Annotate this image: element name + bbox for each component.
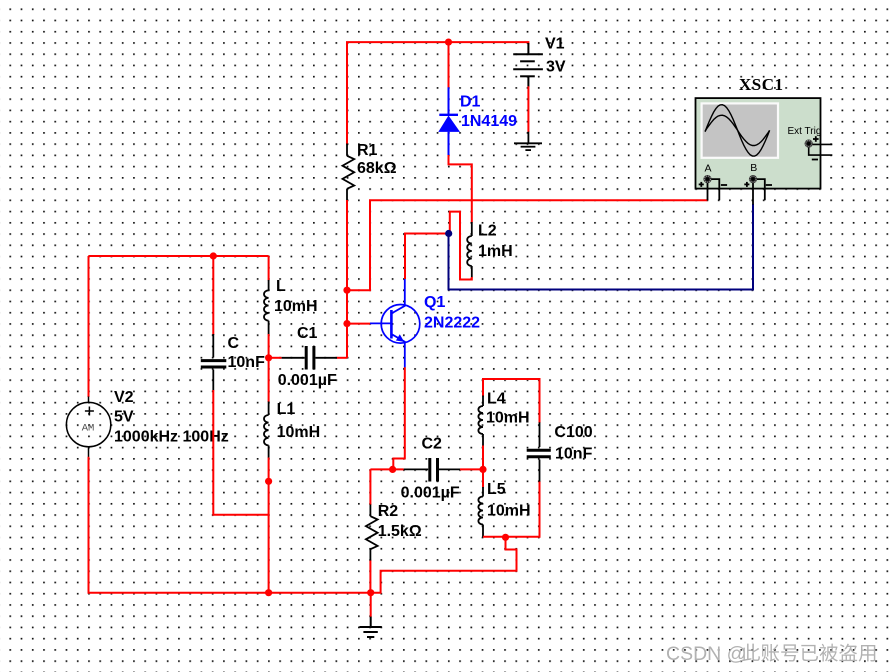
node tank mid junction xyxy=(479,466,486,473)
wire tank loop top xyxy=(483,379,540,423)
wire D1 cathode to L2 top xyxy=(449,155,472,223)
capacitor C2 0.001uF xyxy=(370,458,483,482)
svg-text:10nF: 10nF xyxy=(555,445,593,462)
wire top rail V1/R1/D1 xyxy=(347,42,528,144)
svg-text:C: C xyxy=(228,335,240,352)
oscilloscope XSC1 xyxy=(696,98,821,189)
svg-text:10mH: 10mH xyxy=(486,409,530,426)
source V2 AM xyxy=(66,397,110,458)
wire L1 top xyxy=(268,358,270,402)
wire navy to scope channel B xyxy=(449,204,754,290)
svg-text:B: B xyxy=(750,162,757,174)
svg-text:0.001µF: 0.001µF xyxy=(401,484,460,501)
wire V2 bottom to ground rail xyxy=(89,457,371,593)
svg-text:1.5kΩ: 1.5kΩ xyxy=(378,523,422,540)
wire L top xyxy=(268,256,270,281)
wire tank to ground rail xyxy=(371,537,517,592)
node ground rail R2 xyxy=(367,589,374,596)
inductor L 10mH xyxy=(264,280,269,335)
junction node top (D1 top) xyxy=(445,39,452,46)
svg-text:Ext Trig: Ext Trig xyxy=(788,126,822,137)
inductor L1 10mH xyxy=(264,402,269,459)
node base junction xyxy=(343,320,350,327)
svg-text:10mH: 10mH xyxy=(274,298,318,315)
wire C bottom to rail xyxy=(213,390,268,515)
ground under V1 xyxy=(514,132,542,150)
svg-text:L: L xyxy=(276,278,286,295)
svg-text:C2: C2 xyxy=(422,436,443,453)
wire to scope channel A xyxy=(347,200,707,290)
svg-text:V2: V2 xyxy=(114,389,134,406)
svg-text:V1: V1 xyxy=(545,35,565,52)
svg-text:C100: C100 xyxy=(554,424,592,441)
svg-text:10nF: 10nF xyxy=(228,354,266,371)
wire L4-L5 xyxy=(482,446,484,488)
resistor R1 xyxy=(343,144,355,201)
wire collector node to Q1 xyxy=(405,234,449,280)
terminal B xyxy=(744,175,772,187)
svg-text:D1: D1 xyxy=(460,93,481,110)
wire A- stub xyxy=(711,179,719,200)
wire R2 top xyxy=(369,469,371,505)
node on rail xyxy=(265,478,272,485)
svg-text:C1: C1 xyxy=(297,325,318,342)
svg-text:L5: L5 xyxy=(487,481,506,498)
inductor L5 10mH xyxy=(478,487,483,537)
node C top junction xyxy=(210,252,217,259)
svg-text:R1: R1 xyxy=(357,142,378,159)
wire R2 bottom xyxy=(369,561,371,593)
svg-text:R2: R2 xyxy=(378,503,399,520)
wire left loop top xyxy=(89,255,269,257)
ext trig terminal xyxy=(805,136,833,159)
svg-text:A: A xyxy=(704,163,711,175)
node C1 junction xyxy=(265,354,272,361)
battery V1 xyxy=(513,43,543,87)
svg-text:10mH: 10mH xyxy=(487,503,531,520)
inductor L4 10mH xyxy=(478,396,483,447)
diode D1 1N4149 xyxy=(438,87,460,155)
node emitter junction xyxy=(389,466,396,473)
svg-text:L1: L1 xyxy=(277,401,296,418)
wire B+ stub xyxy=(752,183,754,205)
transistor Q1 2N2222 xyxy=(370,279,420,368)
svg-text:0.001µF: 0.001µF xyxy=(278,372,337,389)
wire D1 anode from top rail xyxy=(448,42,450,87)
node tank bottom junction xyxy=(502,534,509,541)
wire base stub xyxy=(347,323,371,325)
capacitor C1 0.001uF xyxy=(269,346,347,370)
resistor R2 xyxy=(366,504,378,561)
ground main xyxy=(359,617,381,637)
wire R1 bottom rail xyxy=(346,200,348,358)
svg-text:1N4149: 1N4149 xyxy=(461,113,517,130)
wire A+ stub xyxy=(707,183,709,201)
node ground rail left xyxy=(265,589,272,596)
svg-text:10mH: 10mH xyxy=(277,424,321,441)
watermark CSDN xyxy=(666,643,875,665)
wire ground stub xyxy=(370,593,372,617)
svg-text:3V: 3V xyxy=(546,58,566,75)
wire B- stub xyxy=(757,179,765,200)
svg-text:L2: L2 xyxy=(478,222,497,239)
svg-text:Q1: Q1 xyxy=(424,294,445,311)
wire tank loop bottom xyxy=(483,481,540,537)
capacitor C 10nF xyxy=(201,256,227,391)
svg-text:1000kHz 100Hz: 1000kHz 100Hz xyxy=(114,428,229,445)
wire L2 bottom hook to collector node xyxy=(450,212,472,280)
svg-text:AM: AM xyxy=(82,423,95,435)
svg-text:5V: 5V xyxy=(114,409,134,426)
wire Q1 emitter down xyxy=(393,367,405,469)
svg-text:68kΩ: 68kΩ xyxy=(357,160,397,177)
svg-text:CSDN @: CSDN @ xyxy=(666,643,746,665)
svg-text:L4: L4 xyxy=(487,391,506,408)
wire V1 to ground xyxy=(527,86,529,132)
capacitor C100 10nF xyxy=(527,422,551,481)
svg-text:2N2222: 2N2222 xyxy=(424,315,480,332)
wire L bottom xyxy=(268,334,270,358)
Q1 emitter arrow xyxy=(396,334,404,342)
wire L1 bottom rail xyxy=(268,458,270,593)
svg-text:1mH: 1mH xyxy=(478,243,513,260)
node collector junction xyxy=(445,230,452,237)
wire V2 top xyxy=(88,256,90,397)
node R1-scope junction xyxy=(343,287,350,294)
svg-text:XSC1: XSC1 xyxy=(739,75,784,94)
inductor L2 1mH xyxy=(467,222,472,278)
terminal A xyxy=(699,175,727,187)
